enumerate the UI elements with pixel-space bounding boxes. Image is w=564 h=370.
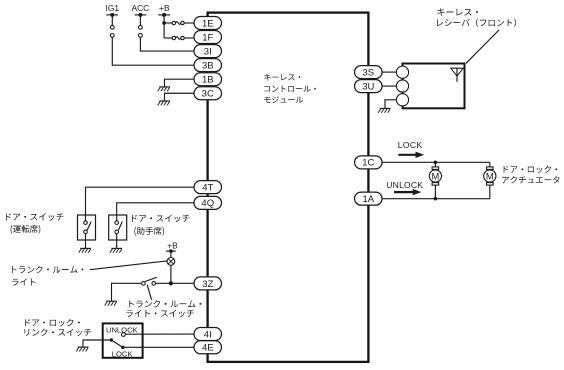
svg-text:3B: 3B — [202, 61, 214, 72]
pin 4T — [194, 181, 222, 194]
svg-text:+B: +B — [159, 3, 170, 13]
pin 4Q — [194, 196, 222, 209]
label: door switch driver line2 (運転席) — [11, 225, 41, 234]
svg-text:LOCK: LOCK — [398, 140, 423, 150]
wire pin 4Q to door switch 2 — [117, 203, 194, 215]
door switch SW1 (driver) box — [78, 215, 96, 240]
junction lamp/3Z wire — [169, 281, 173, 285]
receiver label pointer line — [466, 30, 499, 63]
receiver terminal 3 — [396, 94, 408, 106]
+B source bar — [158, 14, 170, 16]
door lock motor M1 — [429, 167, 441, 185]
svg-text:UNLOCK: UNLOCK — [386, 180, 423, 190]
trunk room light switch SW3 — [142, 277, 157, 285]
junction +B branch — [162, 21, 166, 25]
door switch SW2 internals — [115, 215, 122, 248]
IG1 source dot — [110, 13, 114, 17]
svg-text:LOCK: LOCK — [112, 350, 133, 359]
svg-text:M: M — [486, 170, 494, 181]
wire IG1 down to connector — [111, 15, 113, 26]
pin 3I — [194, 45, 222, 58]
ground (trunk switch) — [105, 301, 117, 305]
label: door switch driver line1 ドア・スイッチ — [6, 213, 63, 221]
svg-text:3Z: 3Z — [202, 279, 213, 290]
wire lamp to junction — [170, 265, 172, 283]
label: trunk room light switch line1 トランク・ルーム・ — [129, 300, 201, 307]
wire trunk switch to ground leg — [112, 283, 142, 301]
svg-text:3S: 3S — [362, 67, 374, 78]
pin 3B — [194, 59, 222, 72]
svg-text:4T: 4T — [202, 183, 213, 194]
fuse F1 to pin 1E — [164, 21, 194, 24]
label: module name line1 キーレス・ — [264, 74, 300, 81]
connector ACC (inline coupler) — [139, 25, 143, 37]
wire pin 3U to receiver — [382, 85, 396, 87]
pin 1C — [355, 156, 383, 169]
svg-text:4E: 4E — [202, 343, 214, 354]
pin 4E — [194, 341, 222, 354]
svg-text:3C: 3C — [202, 89, 214, 100]
label: module name line3 モジュール — [264, 96, 303, 103]
label: door switch passenger line2 (助手席) — [134, 227, 164, 236]
svg-text:1F: 1F — [202, 32, 213, 43]
junction unlock/motor1 — [434, 197, 438, 201]
door switch SW1 internals — [84, 215, 91, 248]
ground (pin 1B) — [158, 87, 170, 91]
label: door switch passenger line1 ドア・スイッチ — [132, 215, 189, 223]
svg-text:1A: 1A — [362, 194, 374, 205]
wire motor2 bottom — [489, 185, 491, 198]
label: door lock link switch line2 リンク・スイッチ — [24, 329, 91, 337]
wire motor1 bottom — [434, 185, 436, 198]
pin 3C — [194, 87, 222, 100]
svg-text:1B: 1B — [202, 75, 214, 86]
+B source dot (trunk light) — [169, 249, 173, 253]
pin 1B — [194, 73, 222, 86]
trunk switch label pointer — [147, 285, 152, 300]
connector IG1 (inline coupler) — [110, 25, 114, 37]
door switch SW2 (passenger) box — [109, 215, 127, 240]
+B source bar (trunk light) — [166, 250, 176, 252]
label: door lock actuator line2 アクチュエータ — [502, 176, 559, 183]
wire pin 3S to receiver — [382, 71, 396, 73]
ground (receiver) — [378, 108, 390, 112]
antenna — [451, 68, 463, 82]
fuse F2 to pin 1F — [164, 36, 194, 39]
wire motor2 top — [489, 162, 491, 166]
pin 3Z — [194, 277, 222, 290]
svg-text:3U: 3U — [362, 81, 374, 92]
svg-text:3I: 3I — [204, 46, 212, 57]
wire motor1 top — [434, 162, 436, 166]
ground (door switch 2) — [110, 248, 122, 252]
label: trunk room light switch line2 ライト・スイッチ — [126, 310, 194, 318]
wire UNLOCK contact to pin 4I — [125, 333, 194, 335]
ground (link switch) — [76, 347, 88, 351]
ground (pin 3C) — [158, 101, 170, 105]
label: trunk room light line2 ライト — [12, 279, 35, 286]
svg-text:IG1: IG1 — [106, 3, 120, 13]
svg-text:M: M — [431, 170, 439, 181]
door lock link switch SW4 box — [103, 323, 143, 357]
wire trunk switch to pin 3Z — [156, 282, 195, 284]
IG1 source bar — [106, 14, 118, 16]
+B source dot — [162, 13, 166, 17]
link switch common contact — [110, 338, 113, 341]
keyless control module U1 outline — [208, 13, 369, 362]
junction lock/motor1 — [434, 161, 438, 165]
wire ACC to pin 3I — [140, 37, 194, 51]
ACC source bar — [135, 14, 147, 16]
link switch LOCK contact — [121, 346, 124, 349]
ground (door switch 1) — [79, 248, 91, 252]
label: trunk room light line1 トランク・ルーム・ — [12, 266, 83, 273]
wire pin 1C lock line — [382, 161, 490, 163]
svg-text:+B: +B — [167, 240, 178, 250]
wire LOCK contact to pin 4E — [125, 346, 195, 348]
pin 4I — [194, 328, 222, 341]
pin 3U — [355, 80, 383, 93]
pin 1A — [355, 192, 383, 205]
svg-text:1C: 1C — [362, 158, 374, 169]
door lock motor M2 — [484, 167, 496, 185]
wire pin 1A unlock line — [382, 198, 490, 200]
svg-text:4I: 4I — [204, 329, 212, 340]
label: door lock link switch line1 ドア・ロック・ — [25, 319, 80, 327]
receiver terminal 1 — [396, 66, 408, 78]
receiver terminal 2 — [396, 80, 408, 92]
wire pin 3C to ground — [165, 93, 195, 101]
label: module name line2 コントロール・ — [264, 85, 316, 91]
keyless receiver (front) box — [403, 64, 465, 109]
wire pin 1B to ground — [165, 79, 195, 87]
ACC source dot — [138, 13, 142, 17]
label: door lock actuator line1 ドア・ロック・ — [504, 166, 558, 174]
wire IG1 to pin 3B — [112, 37, 194, 65]
UNLOCK arrow — [394, 189, 421, 195]
wire +B to trunk lamp — [170, 251, 172, 257]
trunk room light lamp L1 — [167, 258, 175, 266]
wire receiver terminal 3 to ground — [385, 100, 396, 109]
wire ACC down to connector — [139, 15, 141, 26]
pin 1F — [194, 31, 222, 44]
svg-text:1E: 1E — [202, 18, 214, 29]
wire pin 4T to door switch 1 — [86, 187, 195, 215]
trunk light label pointer — [90, 261, 167, 270]
wire +B trunk — [163, 15, 165, 38]
link switch common wire to ground — [83, 340, 111, 347]
pin 3S — [355, 66, 383, 79]
LOCK arrow — [398, 152, 424, 158]
link switch lever — [111, 340, 122, 347]
pin 1E — [194, 17, 222, 30]
link switch UNLOCK contact — [122, 333, 126, 337]
label: receiver line1 キーレス・ — [437, 8, 478, 16]
label: receiver line2 レシーバ（フロント） — [437, 18, 516, 26]
svg-text:4Q: 4Q — [201, 198, 214, 209]
svg-text:ACC: ACC — [132, 3, 150, 13]
